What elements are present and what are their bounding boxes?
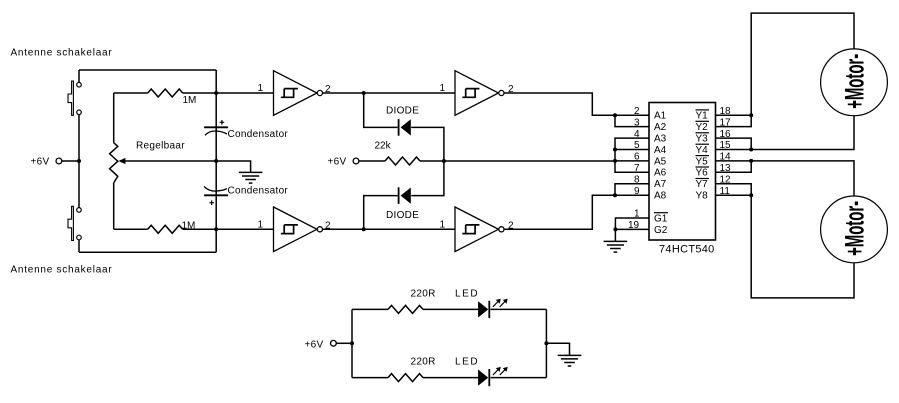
svg-text:Y7: Y7: [696, 179, 709, 190]
junction node mid rail: [214, 159, 218, 163]
svg-text:2: 2: [634, 106, 640, 117]
pin label Y6: [696, 167, 710, 179]
LED LED2: [478, 367, 508, 386]
svg-text:5: 5: [634, 140, 640, 151]
terminal +6V LED section: [305, 340, 337, 351]
svg-text:74HCT540: 74HCT540: [659, 244, 715, 256]
wire node B up to D2: [364, 161, 444, 229]
svg-text:22k: 22k: [375, 141, 392, 152]
svg-text:DIODE: DIODE: [386, 210, 419, 221]
wire inner box left edge top: [113, 93, 115, 143]
svg-text:1: 1: [258, 83, 264, 94]
resistor R5 220R: [352, 305, 478, 313]
svg-text:220R: 220R: [411, 288, 436, 299]
junction node pin11: [749, 193, 753, 197]
capacitor C2 (bottom Condensator): [204, 186, 288, 206]
junction node pin5: [613, 148, 617, 152]
svg-text:4: 4: [634, 129, 640, 140]
svg-text:3: 3: [634, 117, 640, 128]
wire U1D input: [364, 228, 455, 230]
svg-text:1: 1: [440, 83, 446, 94]
svg-text:Regelbaar: Regelbaar: [136, 140, 185, 151]
svg-text:9: 9: [634, 186, 640, 197]
resistor R1 1M top: [148, 89, 183, 97]
svg-text:Y8: Y8: [696, 191, 709, 202]
switch S2 (antenna pushbutton bottom): [68, 206, 81, 240]
wire U1D output to IC A7/A8: [504, 195, 649, 229]
wire center column segments: [215, 70, 217, 252]
svg-text:Antenne schakelaar: Antenne schakelaar: [11, 48, 113, 59]
op-amp U1C Schmitt inverter (bottom left): [274, 207, 323, 252]
svg-text:Y6: Y6: [696, 168, 709, 179]
junction node top row: [214, 91, 218, 95]
junction node bottom row: [214, 227, 218, 231]
wire pin12/11 stubs to motor2 bottom: [716, 184, 855, 298]
wire pin14/13 stubs to motor2 top: [716, 161, 855, 196]
wire LED left column: [351, 309, 353, 377]
svg-text:Antenne schakelaar: Antenne schakelaar: [11, 265, 113, 276]
svg-text:1: 1: [634, 209, 640, 220]
junction node pin6 (+6V): [613, 159, 617, 163]
terminal +6V mid: [328, 157, 359, 168]
junction node A (U1A out): [362, 91, 366, 95]
svg-text:A5: A5: [654, 156, 667, 167]
motor M1 (top): [821, 49, 888, 116]
wire 22k to diodes node: [420, 160, 444, 162]
svg-text:A7: A7: [654, 179, 667, 190]
svg-text:LED: LED: [455, 288, 479, 299]
wire pin18/17 stubs to motor1 top: [716, 13, 855, 127]
resistor R2 1M bottom: [148, 225, 183, 233]
wire mid ground tap: [216, 161, 250, 172]
wire +6V to LED node: [336, 342, 352, 344]
junction node B (U1C out): [362, 227, 366, 231]
svg-text:6: 6: [634, 152, 640, 163]
wire U1A input: [216, 92, 273, 94]
wire U1A output: [323, 92, 364, 94]
svg-text:Y5: Y5: [696, 156, 709, 167]
junction node LED left: [350, 341, 354, 345]
LED LED1: [478, 299, 508, 318]
junction node pin9: [613, 193, 617, 197]
potentiometer R3 track: [110, 143, 118, 183]
svg-text:A6: A6: [654, 168, 667, 179]
wire node A down to D1: [364, 93, 444, 161]
ground IC: [604, 241, 628, 252]
wire U1B output to IC A1/A2: [504, 93, 649, 115]
svg-text:1M: 1M: [182, 221, 196, 232]
wire pin9 stub: [615, 194, 649, 196]
pot wiper arrow: [118, 158, 125, 164]
junction node G2: [613, 227, 617, 231]
wire +6V rail to IC A5: [444, 160, 615, 162]
pin label G1: [654, 213, 668, 225]
svg-text:A1: A1: [654, 111, 667, 122]
resistor R4 22k: [359, 157, 420, 165]
wire bottom rail left: [79, 251, 216, 253]
pin label Y8: [696, 191, 709, 202]
svg-text:1: 1: [258, 219, 264, 230]
svg-text:Y4: Y4: [696, 145, 709, 156]
junction node pin14: [749, 159, 753, 163]
wire U1B input: [364, 92, 455, 94]
wire G1/G2 tie: [615, 218, 649, 241]
wire pin8 branch: [615, 184, 649, 195]
wire LED2 to right column: [490, 377, 546, 379]
svg-text:+6V: +6V: [328, 157, 347, 168]
pin label Y3: [696, 133, 710, 145]
svg-text:19: 19: [628, 220, 640, 231]
op-amp U1B Schmitt inverter (top right): [455, 71, 504, 116]
junction node LED right: [544, 341, 548, 345]
svg-text:Condensator: Condensator: [228, 129, 289, 140]
svg-text:G1: G1: [654, 213, 668, 224]
wire pot wiper to mid node: [125, 160, 216, 162]
pin label Y4: [696, 144, 710, 156]
wire U1C input: [216, 228, 273, 230]
pin label Y5: [696, 156, 710, 168]
op-amp U2 74HCT540 body: [649, 103, 716, 241]
svg-text:LED: LED: [455, 357, 479, 368]
wire +6V feed left: [62, 160, 79, 162]
diode D1: [399, 119, 411, 136]
pin label Y1: [696, 110, 710, 122]
junction node pin2: [613, 113, 617, 117]
capacitor C1 (top Condensator): [204, 120, 288, 140]
svg-text:Condensator: Condensator: [228, 186, 289, 197]
svg-text:220R: 220R: [411, 357, 436, 368]
svg-text:A8: A8: [654, 191, 667, 202]
svg-text:1: 1: [440, 219, 446, 230]
wire inner box top edge: [114, 92, 217, 94]
wire inner box bottom edge: [114, 228, 217, 230]
wire LED ground tap: [546, 343, 569, 355]
svg-text:G2: G2: [654, 225, 668, 236]
wire top rail left: [79, 69, 216, 71]
svg-text:A2: A2: [654, 122, 667, 133]
wire pin3 branch: [615, 115, 649, 126]
svg-text:8: 8: [634, 175, 640, 186]
resistor R6 220R: [352, 374, 478, 382]
svg-text:A4: A4: [654, 145, 667, 156]
wire U1C output: [323, 228, 364, 230]
wire inner box left edge bottom: [113, 183, 115, 229]
op-amp U1D Schmitt inverter (bottom right): [455, 207, 504, 252]
ground LED: [558, 355, 582, 366]
svg-text:Y3: Y3: [696, 134, 709, 145]
terminal +6V left: [31, 157, 62, 168]
junction node pin15: [749, 148, 753, 152]
svg-text:+Motor-: +Motor-: [839, 201, 870, 256]
svg-text:Y1: Y1: [696, 111, 709, 122]
svg-text:7: 7: [634, 163, 640, 174]
svg-text:1M: 1M: [183, 95, 197, 106]
op-amp U1A Schmitt inverter (top left): [274, 71, 323, 116]
svg-text:A3: A3: [654, 134, 667, 145]
pin label Y2: [696, 121, 710, 133]
ground mid: [239, 172, 263, 183]
pin label Y7: [696, 179, 710, 191]
svg-text:+Motor-: +Motor-: [839, 54, 870, 109]
diode D2: [399, 187, 411, 204]
wire pins 4-7 tie: [615, 138, 649, 172]
wire pin16/15 stubs to motor1 bottom: [716, 116, 855, 150]
junction left +6V node: [77, 159, 81, 163]
junction node pin18: [749, 113, 753, 117]
wire LED1 to right column: [490, 308, 546, 310]
svg-text:Y2: Y2: [696, 122, 709, 133]
switch S1 (antenna pushbutton top): [68, 81, 81, 115]
svg-text:DIODE: DIODE: [386, 106, 419, 117]
motor M2 (bottom): [821, 196, 888, 263]
svg-text:+6V: +6V: [305, 340, 324, 351]
wire switch column: [78, 70, 80, 252]
junction node diodes/22k: [442, 159, 446, 163]
svg-text:+6V: +6V: [31, 157, 50, 168]
wire LED right column: [545, 309, 547, 377]
